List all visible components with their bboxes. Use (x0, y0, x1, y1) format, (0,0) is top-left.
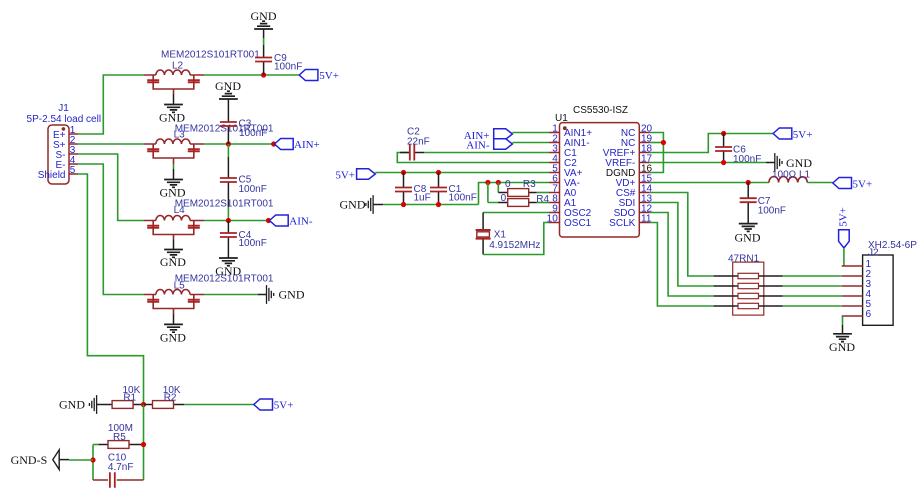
svg-text:1uF: 1uF (414, 193, 431, 204)
ground right of L5 (258, 285, 305, 304)
resistor R2 10K (144, 385, 185, 409)
wire RN1 to J2 pin3 (783, 285, 842, 287)
ferrite filter L3 (144, 123, 274, 179)
wire VREF- (650, 162, 766, 164)
wire AIN+ to pin1 (512, 132, 549, 134)
svg-text:22nF: 22nF (407, 136, 430, 147)
junction R3 feed (496, 180, 501, 185)
svg-text:GND: GND (735, 230, 761, 244)
svg-text:5: 5 (70, 165, 76, 176)
svg-text:L4: L4 (174, 205, 186, 216)
port 5V+ bottom left (254, 399, 294, 411)
svg-text:GND: GND (251, 9, 277, 23)
junction at C9 (261, 72, 266, 77)
port AIN+ middle (464, 129, 513, 142)
svg-text:100nF: 100nF (274, 62, 302, 73)
junction C8 bottom (401, 202, 406, 207)
capacitor C2 22nF (397, 127, 549, 163)
svg-text:6: 6 (866, 309, 872, 320)
port AIN- middle (466, 139, 512, 152)
wire 5V+ to J2 pin1 (843, 248, 845, 266)
capacitor C8 1uF (395, 173, 431, 205)
wire J2 pin6 to ground (842, 316, 844, 334)
capacitor C1 100nF (430, 173, 477, 205)
ground under L4 (160, 250, 186, 270)
svg-text:5V+: 5V+ (335, 169, 355, 181)
ground middle left (340, 195, 384, 214)
port 5V+ middle (335, 169, 375, 182)
svg-text:AIN+: AIN+ (294, 139, 320, 151)
capacitor C4 100nF (220, 221, 267, 259)
junction AIN+ port tip (271, 141, 276, 146)
svg-text:100nF: 100nF (449, 193, 477, 204)
ferrite filter L4 (144, 199, 274, 250)
svg-text:GND: GND (59, 398, 85, 412)
wire S+ pin2 to L3 (78, 143, 144, 145)
svg-text:GND: GND (160, 255, 186, 269)
capacitor C5 100nF (220, 144, 267, 221)
resistor network RN1 47 (714, 253, 783, 315)
wire VD+ (650, 182, 769, 184)
junction C1 top (436, 170, 441, 175)
port 5V+ vertical (838, 207, 850, 248)
port GND-S (11, 450, 69, 470)
resistor R5 100M (93, 423, 144, 449)
wire left vertical (92, 445, 94, 481)
junction C8 top (401, 170, 406, 175)
wire RN1 to J2 pin5 (783, 305, 842, 307)
wire GND-S to junction (69, 459, 93, 461)
connector J2 XH2.54-6P (842, 240, 918, 325)
wire Shield pin5 to R1/R2 node (78, 174, 144, 405)
svg-text:AIN-: AIN- (289, 216, 313, 228)
ground left of R1 (59, 395, 97, 414)
port 5V+ top left (299, 70, 339, 82)
svg-text:0: 0 (501, 193, 507, 204)
svg-text:MEM2012S101RT001: MEM2012S101RT001 (161, 50, 260, 61)
wire RN1 to J2 pin2 (783, 275, 842, 277)
svg-text:J2: J2 (868, 248, 879, 259)
junction C6 top (721, 131, 726, 136)
svg-text:GND: GND (160, 330, 186, 344)
ground above C9 (251, 9, 277, 29)
ground under C7 (735, 224, 761, 245)
svg-text:5V+: 5V+ (319, 70, 339, 82)
svg-text:10: 10 (547, 213, 559, 224)
junction GND-S (90, 457, 95, 462)
svg-text:CS5530-ISZ: CS5530-ISZ (573, 105, 628, 116)
svg-text:R2: R2 (164, 392, 177, 403)
wire center vertical to C10 (143, 405, 145, 481)
wire S- pin3 to L4 (78, 154, 144, 221)
svg-text:100Ω L1: 100Ω L1 (772, 170, 811, 181)
port AIN- (270, 215, 313, 228)
wire ground row (383, 204, 478, 206)
svg-text:MEM2012S101RT001: MEM2012S101RT001 (175, 199, 274, 210)
wire SDI to RN1 (650, 203, 714, 287)
wire RN1 to J2 pin4 (783, 295, 842, 297)
crystal X1 4.9152MHz (476, 213, 549, 255)
ground right of VREF- (766, 153, 812, 172)
svg-text:5V+: 5V+ (838, 207, 850, 227)
ferrite filter L2 (144, 50, 260, 105)
svg-text:0: 0 (505, 179, 511, 190)
junction AIN- node (226, 218, 231, 223)
svg-text:R4: R4 (536, 194, 549, 205)
svg-text:AIN-: AIN- (466, 139, 490, 151)
inductor L1 100R (769, 170, 811, 183)
junction AIN+ node (226, 141, 231, 146)
svg-text:L2: L2 (172, 61, 184, 72)
svg-text:R5: R5 (113, 432, 126, 443)
junction R5 right (141, 442, 146, 447)
ground under L2 (159, 105, 185, 125)
svg-text:X1: X1 (494, 230, 507, 241)
junction AIN- port tip (266, 218, 271, 223)
wire SDO to RN1 (650, 213, 714, 297)
junction NC (661, 140, 666, 145)
op-amp ADC U1 CS5530-ISZ (547, 105, 653, 237)
ground under L3 (160, 180, 186, 200)
svg-text:5V+: 5V+ (853, 178, 873, 190)
svg-text:100nF: 100nF (239, 238, 267, 249)
ground under J2 (829, 334, 855, 354)
svg-text:GND: GND (340, 198, 366, 212)
svg-text:U1: U1 (555, 113, 568, 124)
capacitor C9 100nF (255, 29, 302, 75)
wire E+ pin1 to L2 (78, 75, 144, 134)
svg-text:100nF: 100nF (239, 128, 267, 139)
capacitor C6 100nF (715, 134, 761, 166)
port 5V+ top right (773, 128, 812, 141)
wire L5 out (204, 294, 258, 296)
resistor R1 10K (97, 385, 144, 409)
svg-text:OSC1: OSC1 (564, 218, 592, 229)
svg-text:L5: L5 (174, 280, 186, 291)
ground under L5 (160, 324, 186, 344)
svg-text:GND: GND (215, 79, 241, 93)
ground under C4 (215, 258, 241, 278)
port AIN+ (275, 139, 320, 152)
svg-text:L3: L3 (174, 129, 186, 140)
svg-text:100nF: 100nF (758, 206, 786, 217)
junction C7 top (746, 180, 751, 185)
svg-text:4.9152MHz: 4.9152MHz (489, 240, 540, 251)
svg-text:R3: R3 (523, 179, 536, 190)
svg-text:47RN1: 47RN1 (728, 253, 760, 264)
svg-text:5V+: 5V+ (793, 129, 813, 141)
wire L2 out to 5V+ (204, 74, 299, 76)
resistor R4 0 (488, 183, 550, 207)
wire L1 to 5V+ (807, 182, 833, 184)
capacitor C10 4.7nF (93, 453, 144, 488)
wire VREF+ to 5V+ (650, 134, 773, 153)
junction R4 feed (485, 180, 490, 185)
wire R2 to 5V+ (184, 404, 254, 406)
junction C6 bottom (721, 160, 726, 165)
wire SCLK to RN1 (650, 223, 714, 307)
wire 5V+ to pin5 (375, 172, 549, 174)
port 5V+ right (833, 178, 872, 191)
wire CS# to RN1 (650, 193, 714, 277)
svg-text:GND: GND (786, 156, 812, 170)
svg-text:5P-2.54 load cell: 5P-2.54 load cell (27, 114, 102, 125)
svg-text:5V+: 5V+ (274, 399, 294, 411)
svg-text:GND-S: GND-S (11, 453, 48, 467)
svg-text:SCLK: SCLK (609, 218, 635, 229)
resistor R3 0 (498, 179, 549, 197)
junction R1/R2 (141, 402, 146, 407)
svg-text:4.7nF: 4.7nF (108, 462, 134, 473)
wire L4 out / node AIN- (204, 220, 269, 222)
svg-text:Shield: Shield (38, 170, 66, 181)
wire E- pin4 to L5 (78, 164, 144, 295)
svg-text:GND: GND (829, 340, 855, 354)
svg-text:R1: R1 (123, 392, 136, 403)
ground above C3 (215, 79, 241, 99)
svg-text:GND: GND (279, 288, 305, 302)
svg-text:100nF: 100nF (733, 154, 761, 165)
capacitor C7 100nF (740, 183, 786, 224)
wire AIN- to pin2 (512, 142, 549, 144)
wire L3 out / node AIN+ (204, 143, 274, 145)
svg-text:100nF: 100nF (239, 184, 267, 195)
connector J1 (27, 103, 102, 184)
svg-text:J1: J1 (58, 103, 69, 114)
svg-text:GND: GND (160, 185, 186, 199)
svg-text:MEM2012S101RT001: MEM2012S101RT001 (175, 274, 274, 285)
wire NC tie to DGND (650, 133, 664, 173)
wire VA- to ground (479, 183, 550, 205)
capacitor C3 100nF (220, 99, 267, 144)
wire NC pin19 (650, 142, 664, 144)
ferrite filter L5 (144, 274, 274, 325)
junction C1 bottom (436, 202, 441, 207)
